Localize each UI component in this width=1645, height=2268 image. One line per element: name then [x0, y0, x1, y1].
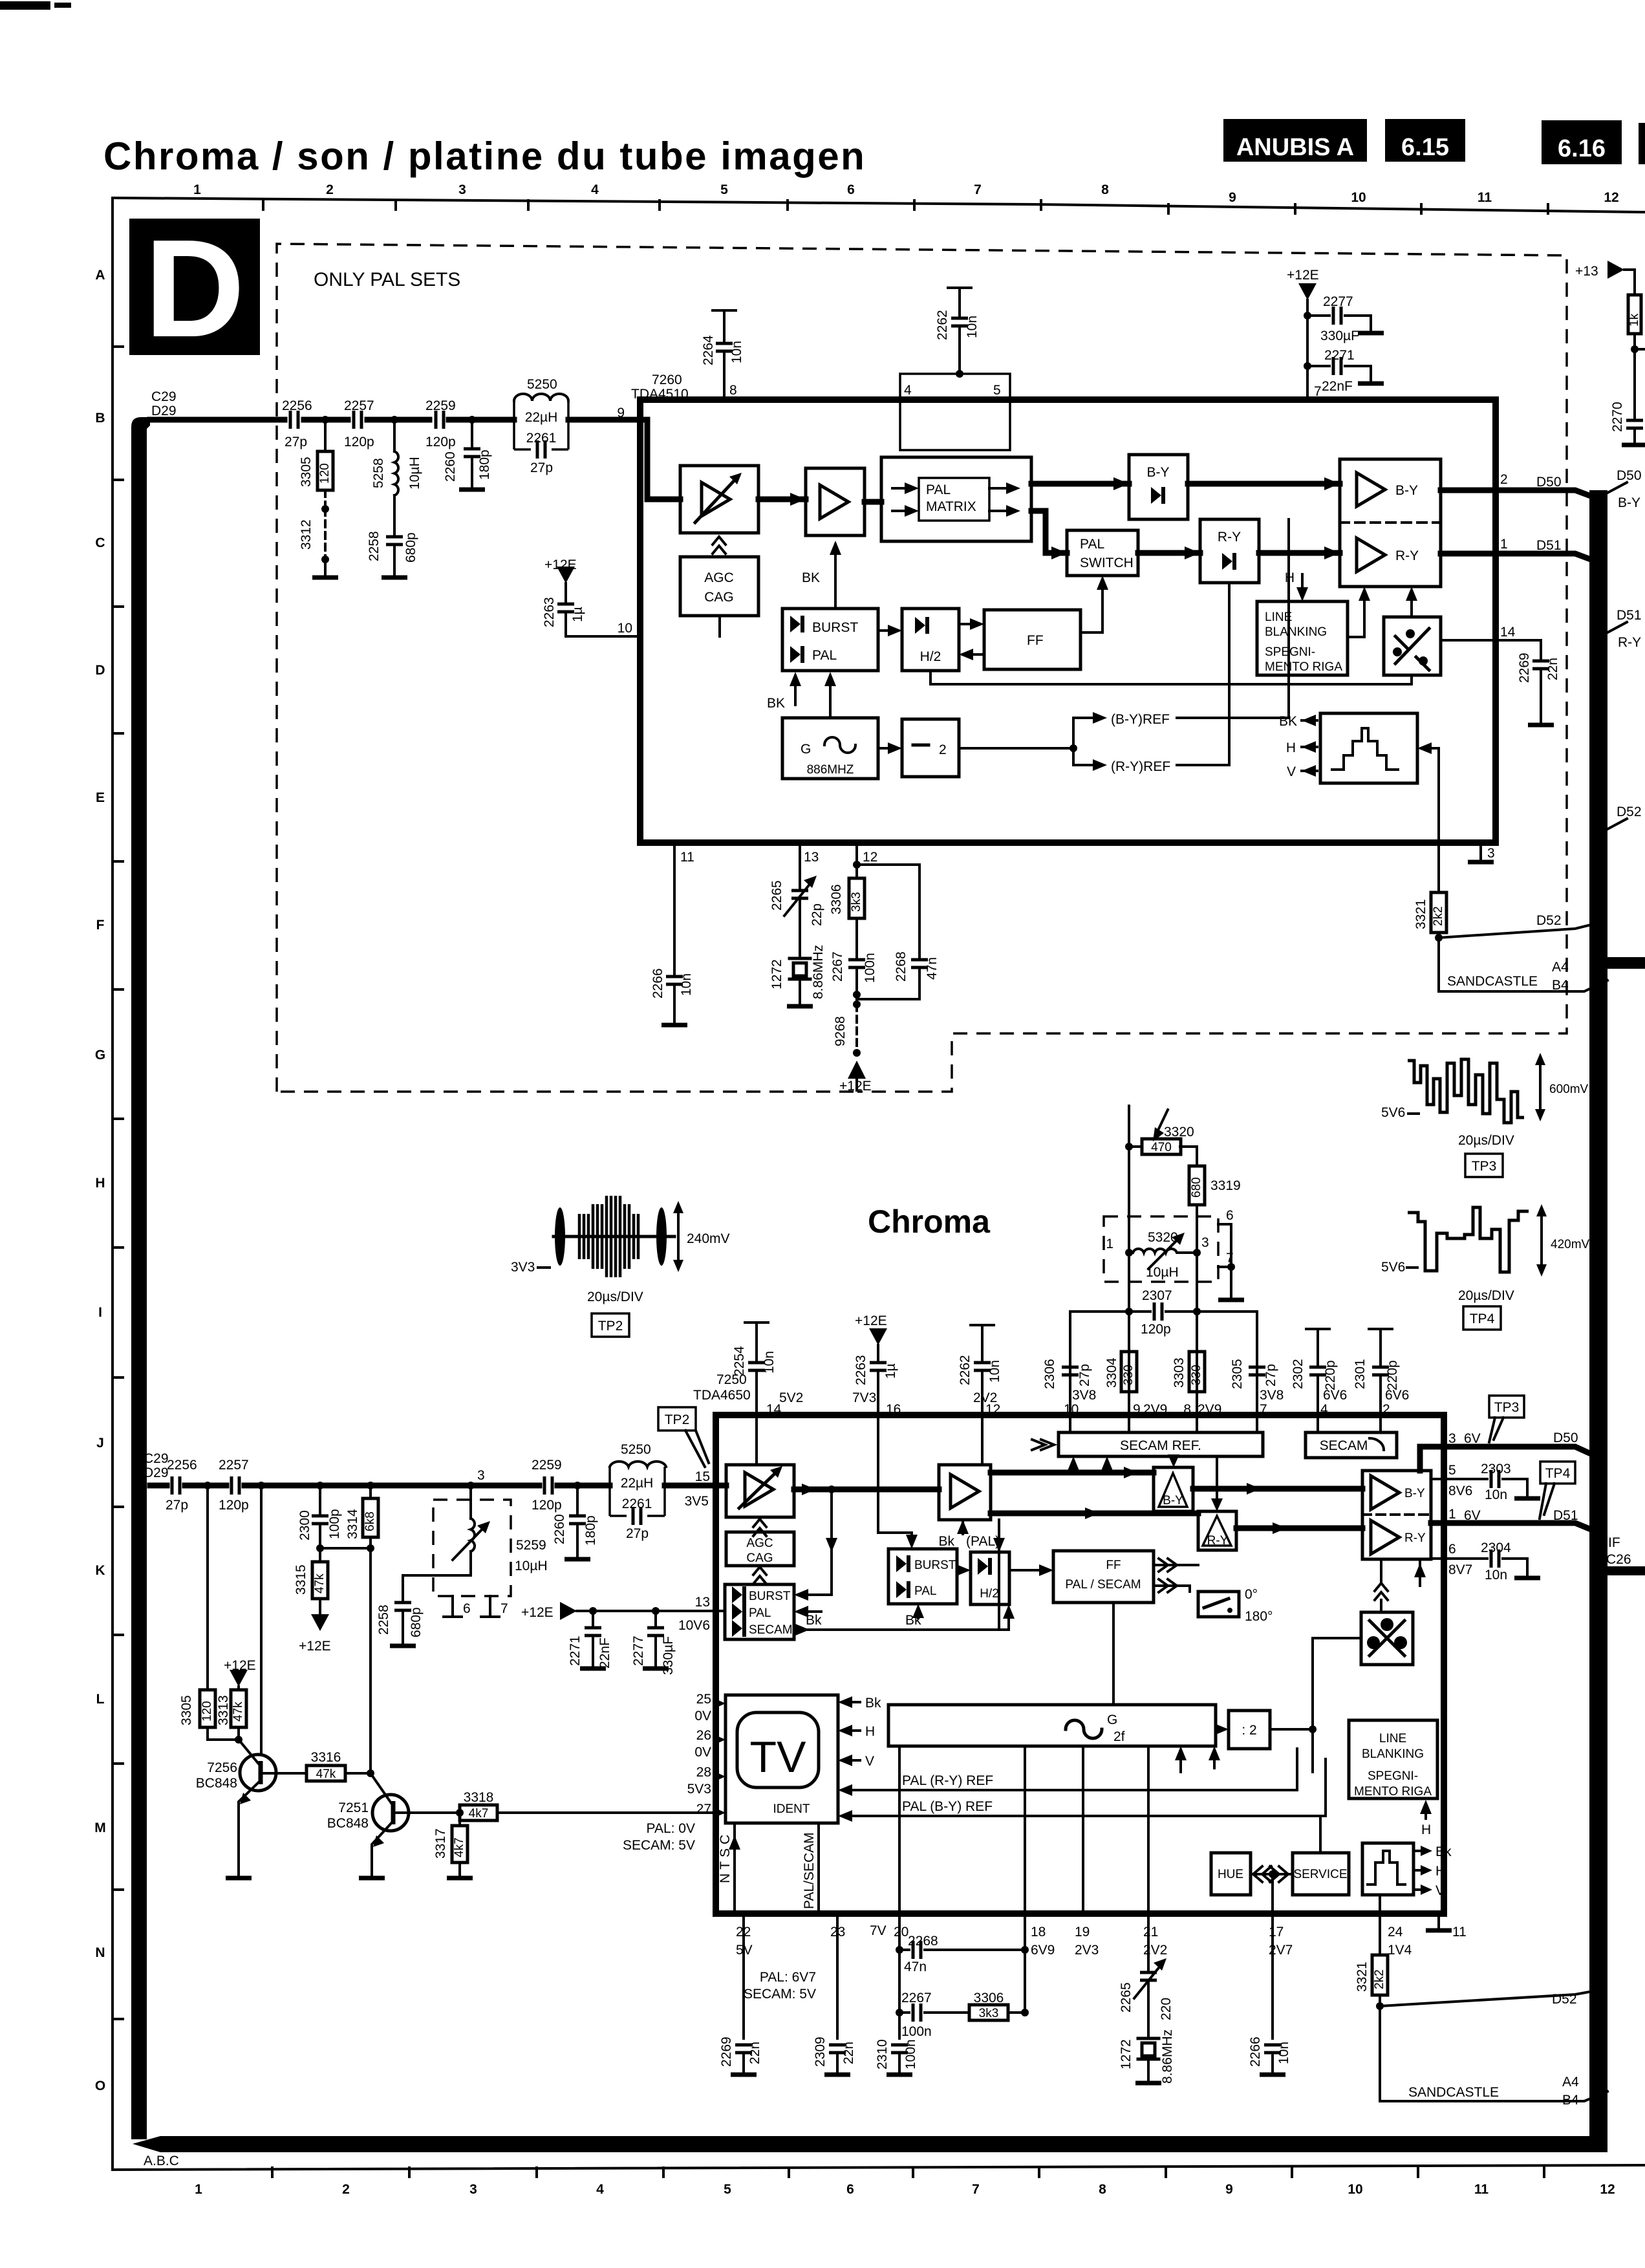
- svg-text:ONLY PAL SETS: ONLY PAL SETS: [314, 269, 460, 290]
- svg-text:SECAM: 5V: SECAM: 5V: [744, 1987, 816, 2002]
- resistor 3313 (47k): [231, 1690, 246, 1727]
- block: oscillator G 2f: [888, 1705, 1216, 1746]
- svg-text:8.86MHz: 8.86MHz: [1160, 2029, 1175, 2084]
- bus tap label D51 / R-Y (right edge): [1607, 622, 1627, 632]
- PAL (B-Y) REF line: [842, 1815, 1326, 1817]
- svg-text:4: 4: [596, 2182, 604, 2197]
- block: sandcastle staircase (TDA4650): [1362, 1843, 1414, 1895]
- wires SECAM REF to demodulators: [1174, 1456, 1217, 1507]
- svg-text:24: 24: [1388, 1925, 1403, 1939]
- wires G box pin drops: [899, 1746, 1148, 1914]
- svg-text:Chroma: Chroma: [868, 1204, 991, 1240]
- svg-text:180p: 180p: [477, 449, 492, 480]
- svg-text:3k3: 3k3: [979, 2007, 999, 2020]
- block: B-Y demodulator (TDA4650): [1154, 1467, 1193, 1511]
- BK input below BURST PAL: [794, 676, 797, 705]
- svg-text:IDENT: IDENT: [773, 1802, 810, 1816]
- block: chroma amplifier: [806, 468, 865, 535]
- svg-text:PAL: PAL: [812, 648, 837, 663]
- svg-text:TP3: TP3: [1494, 1400, 1520, 1415]
- wire (R-Y)REF: [1073, 748, 1093, 765]
- svg-text:G: G: [801, 742, 811, 757]
- svg-text:10n: 10n: [762, 1351, 777, 1374]
- svg-text:D29: D29: [144, 1465, 169, 1480]
- svg-text:2: 2: [326, 182, 334, 197]
- block: output amplifiers B-Y / R-Y: [1340, 459, 1441, 587]
- capacitor 2257 (120p): [354, 411, 361, 429]
- svg-text:20µs/DIV: 20µs/DIV: [587, 1290, 643, 1304]
- wire matrix to B-Y demod: [1031, 481, 1129, 487]
- svg-text:9: 9: [1229, 190, 1236, 205]
- svg-text:3317: 3317: [433, 1828, 448, 1859]
- terminals 6 / 7 of 5259: [444, 1596, 499, 1617]
- svg-text:2257: 2257: [344, 398, 374, 413]
- svg-text:CAG: CAG: [704, 590, 734, 605]
- wire (B-Y)REF: [959, 718, 1093, 748]
- capacitor 2269 (22n) on pin 14: [1496, 640, 1541, 660]
- svg-text:10µH: 10µH: [1146, 1265, 1179, 1280]
- svg-text:28: 28: [696, 1765, 711, 1780]
- svg-text:2f: 2f: [1113, 1729, 1125, 1744]
- wire sandcastle to pin 24: [1379, 1895, 1381, 1914]
- svg-text:A4: A4: [1552, 960, 1569, 975]
- wire bell filter up to output amps: [1380, 1559, 1382, 1583]
- svg-text:3321: 3321: [1414, 899, 1428, 929]
- wire 5259 to capacitor 2258 (680p) bottom: [403, 1551, 471, 1601]
- svg-text:2265: 2265: [769, 880, 784, 911]
- svg-text:2305: 2305: [1230, 1359, 1245, 1389]
- block: BURST / PAL gate 2: [888, 1549, 957, 1604]
- block: LINE BLANKING / SPEGNIMENTO RIGA (TDA4650): [1349, 1720, 1437, 1798]
- capacitor 2277 (330uF) bottom: [654, 1611, 657, 1626]
- svg-text:6: 6: [1226, 1208, 1234, 1223]
- svg-text:5: 5: [993, 383, 1001, 398]
- svg-text:: 2: : 2: [1242, 1723, 1256, 1738]
- svg-text:A: A: [95, 268, 105, 283]
- svg-text:9268: 9268: [833, 1016, 848, 1046]
- top ruler numbers 1-12: [193, 182, 1619, 205]
- svg-text:SWITCH: SWITCH: [1080, 556, 1134, 570]
- svg-text:BK: BK: [767, 696, 785, 711]
- svg-text:B4: B4: [1562, 2093, 1579, 2108]
- svg-text:K: K: [95, 1563, 105, 1578]
- capacitor 2267 (100n) and resistor 3306 (3k3) bottom: [896, 2009, 903, 2016]
- svg-text:7260: 7260: [652, 373, 682, 387]
- node junctions on J bus: [204, 1482, 211, 1489]
- svg-text:10V6: 10V6: [678, 1618, 710, 1633]
- svg-text:2261: 2261: [526, 431, 557, 446]
- svg-text:BURST: BURST: [914, 1559, 956, 1572]
- svg-text:1: 1: [1448, 1507, 1456, 1522]
- block: PAL MATRIX: [881, 457, 1031, 541]
- svg-text:PAL: PAL: [926, 482, 951, 497]
- svg-text:330: 330: [1190, 1365, 1203, 1385]
- svg-text:1µ: 1µ: [570, 607, 585, 622]
- svg-text:0V: 0V: [694, 1709, 711, 1723]
- svg-text:LINE: LINE: [1265, 610, 1292, 624]
- svg-text:3304: 3304: [1104, 1357, 1119, 1388]
- ground: [312, 577, 338, 578]
- svg-text:D: D: [144, 210, 244, 366]
- svg-text:H: H: [865, 1724, 875, 1739]
- bus tap label D52 (right edge): [1607, 819, 1627, 829]
- svg-text:10: 10: [1351, 190, 1366, 205]
- svg-text:+12E: +12E: [299, 1639, 331, 1654]
- wire amp2 top output to B-Y demod: [991, 1470, 1154, 1476]
- TV IDENT inputs Bk H V: [842, 1702, 860, 1760]
- svg-text:5259: 5259: [516, 1538, 546, 1553]
- svg-text:5250: 5250: [621, 1442, 651, 1457]
- svg-text:6V: 6V: [1464, 1431, 1481, 1446]
- capacitor 2257 (120p) bottom: [231, 1476, 239, 1495]
- block: R-Y demodulator: [1200, 519, 1259, 583]
- svg-text:TP4: TP4: [1470, 1312, 1495, 1326]
- svg-text:120: 120: [318, 463, 332, 484]
- block: divider :2 (TDA4650): [1229, 1711, 1270, 1749]
- svg-text:PAL (R-Y) REF: PAL (R-Y) REF: [902, 1773, 993, 1788]
- svg-text:Chroma / son / platine du tube: Chroma / son / platine du tube imagen: [103, 135, 866, 178]
- svg-text:Bk: Bk: [865, 1696, 881, 1711]
- svg-text:B: B: [95, 411, 105, 426]
- test point TP4 tag (pin 1): [1540, 1462, 1575, 1484]
- pin 12 resistor 3306 (3k3): [855, 843, 858, 878]
- block: LINE BLANKING / SPEGNIMENTO RIGA: [1257, 601, 1348, 675]
- svg-text:FF: FF: [1027, 633, 1044, 648]
- scan artifact top-left: [0, 1, 50, 10]
- svg-text:D51: D51: [1617, 608, 1642, 623]
- svg-text:NTSC: NTSC: [718, 1831, 733, 1883]
- capacitor 2254 (10n) on pin 14: [745, 1321, 768, 1324]
- svg-text:Bk: Bk: [938, 1534, 954, 1549]
- svg-text:D50: D50: [1536, 475, 1562, 490]
- svg-text:6V9: 6V9: [1031, 1943, 1055, 1958]
- svg-text:5: 5: [720, 182, 728, 197]
- svg-text:MATRIX: MATRIX: [926, 499, 976, 514]
- svg-text:47k: 47k: [313, 1573, 327, 1593]
- svg-text:2262: 2262: [958, 1355, 973, 1385]
- svg-text:2306: 2306: [1042, 1359, 1057, 1389]
- svg-text:47n: 47n: [904, 1960, 927, 1974]
- svg-text:C26: C26: [1606, 1552, 1631, 1567]
- wire phase shifter to pin 14: [1441, 639, 1496, 642]
- IC U7260 TDA4510 outline: [640, 400, 1496, 843]
- pin 13 trimmer 2265 (22p): [799, 843, 801, 889]
- svg-text:R-Y: R-Y: [1404, 1531, 1426, 1545]
- svg-text:3315: 3315: [294, 1564, 308, 1595]
- svg-text:H/2: H/2: [980, 1587, 999, 1601]
- bus tap label D50 / B-Y (right edge, top): [1607, 482, 1627, 493]
- svg-text:2257: 2257: [219, 1458, 249, 1473]
- node junction: [321, 416, 329, 424]
- block: chroma amplifier 2 (TDA4650): [939, 1465, 991, 1520]
- svg-text:B-Y: B-Y: [1404, 1487, 1425, 1500]
- capacitor 2270: [1626, 420, 1643, 428]
- svg-text:180°: 180°: [1245, 1609, 1273, 1624]
- svg-text:5320: 5320: [1148, 1230, 1178, 1245]
- svg-text:(R-Y)REF: (R-Y)REF: [1111, 759, 1170, 774]
- svg-text:5V2: 5V2: [779, 1390, 803, 1405]
- block: R-Y demodulator (TDA4650): [1198, 1511, 1236, 1550]
- block: FF flip-flop: [984, 610, 1081, 669]
- svg-text:TP4: TP4: [1545, 1466, 1571, 1481]
- svg-text:8: 8: [1101, 182, 1109, 197]
- svg-text:PAL: PAL: [749, 1606, 771, 1620]
- svg-text:Bk: Bk: [1435, 1844, 1452, 1859]
- resistor 3314 (6k8): [369, 1485, 372, 1498]
- block: input gain-controlled amplifier: [680, 466, 758, 533]
- svg-text:3: 3: [469, 2182, 477, 2197]
- svg-text:3320: 3320: [1164, 1125, 1194, 1139]
- svg-text:8V7: 8V7: [1448, 1562, 1472, 1577]
- svg-text:AGC: AGC: [746, 1537, 773, 1550]
- svg-text:26: 26: [696, 1728, 711, 1743]
- svg-text:7: 7: [972, 2182, 980, 2197]
- svg-text:12: 12: [863, 850, 877, 865]
- wire R-Y demod to output amp: [1236, 1526, 1362, 1531]
- left vertical power bus bar: [131, 417, 150, 2139]
- page frame: bottom ruler line: [113, 2165, 1645, 2170]
- svg-text:7V3: 7V3: [852, 1390, 876, 1405]
- svg-text:+12E: +12E: [1287, 268, 1319, 283]
- svg-text:TP2: TP2: [665, 1412, 690, 1427]
- sandcastle BK H V outputs: [1302, 720, 1317, 771]
- svg-text:3: 3: [1448, 1431, 1456, 1446]
- svg-text:680p: 680p: [409, 1607, 424, 1637]
- svg-text:120p: 120p: [344, 435, 374, 449]
- svg-text:100n: 100n: [863, 953, 877, 983]
- svg-text:0°: 0°: [1245, 1587, 1258, 1602]
- svg-text:3V8: 3V8: [1072, 1388, 1096, 1403]
- svg-text:J: J: [96, 1436, 104, 1451]
- wires oscillator to divider and taps: [1216, 1728, 1225, 1731]
- svg-text:D50: D50: [1617, 468, 1642, 483]
- svg-text:21: 21: [1143, 1925, 1158, 1939]
- wire FF to REF lines: [1112, 1603, 1115, 1705]
- svg-text:7: 7: [1314, 384, 1322, 399]
- svg-text:2263: 2263: [542, 597, 557, 627]
- svg-text:3V5: 3V5: [685, 1494, 709, 1509]
- svg-text:2303: 2303: [1481, 1462, 1511, 1476]
- wire: pin 9 input elbow: [640, 420, 680, 499]
- svg-text:PAL: 6V7: PAL: 6V7: [760, 1970, 816, 1985]
- block: H/2 (TDA4650): [971, 1552, 1009, 1604]
- crystal 1272 (8.86MHz): [799, 900, 801, 956]
- svg-text:2263: 2263: [854, 1355, 868, 1385]
- svg-text:27p: 27p: [530, 460, 553, 475]
- svg-text:5: 5: [724, 2182, 731, 2197]
- svg-text:A4: A4: [1562, 2075, 1579, 2090]
- svg-text:R-Y: R-Y: [1395, 548, 1419, 563]
- capacitor 2307 (120p): [1129, 1310, 1197, 1313]
- svg-text:420mV: 420mV: [1551, 1238, 1590, 1251]
- capacitor 2268 (47n) parallel branch: [857, 865, 919, 958]
- svg-text:2307: 2307: [1142, 1288, 1172, 1303]
- resistor 1k: [1628, 295, 1641, 334]
- svg-text:2258: 2258: [367, 531, 382, 561]
- svg-text:0V: 0V: [694, 1745, 711, 1760]
- wire FF to PAL SWITCH: [1081, 579, 1102, 632]
- svg-text:F: F: [96, 918, 105, 933]
- svg-text:3306: 3306: [974, 1991, 1004, 2005]
- wire bus junction down to resistor 3305 bottom: [206, 1485, 209, 1690]
- svg-text:886MHZ: 886MHZ: [807, 763, 854, 777]
- svg-text:6: 6: [847, 182, 855, 197]
- svg-text:H: H: [1435, 1864, 1445, 1879]
- svg-text:22n: 22n: [747, 2042, 762, 2064]
- svg-text:2269: 2269: [1517, 653, 1532, 683]
- block: FF PAL / SECAM: [1053, 1551, 1154, 1603]
- svg-text:7251: 7251: [338, 1800, 369, 1815]
- test point TP3 tag (pin 3): [1489, 1396, 1524, 1418]
- svg-text:TDA4650: TDA4650: [693, 1388, 751, 1403]
- svg-text:16: 16: [886, 1402, 901, 1417]
- resistor 3303 (330) on pin 8: [1196, 1312, 1198, 1415]
- svg-text:3: 3: [458, 182, 466, 197]
- svg-text:2268: 2268: [894, 951, 909, 982]
- svg-text:PAL: 0V: PAL: 0V: [647, 1821, 696, 1836]
- wire pin 2 output (D50): [1441, 488, 1496, 493]
- ONLY PAL SETS dashed boundary: [277, 244, 1567, 1092]
- variable inductor 5320 (10uH) dashed module: [1104, 1216, 1218, 1282]
- svg-text:10n: 10n: [987, 1360, 1002, 1383]
- svg-text:D52: D52: [1552, 1992, 1577, 2007]
- svg-text:+12E: +12E: [855, 1313, 887, 1328]
- wire: B-row chroma input bus: [150, 417, 640, 423]
- svg-text:5V6: 5V6: [1381, 1105, 1405, 1120]
- wire SANDCASTLE line to bus: [1439, 938, 1607, 991]
- svg-text:SERVICE: SERVICE: [1293, 1868, 1347, 1881]
- svg-text:TV: TV: [750, 1733, 807, 1782]
- block: AGC CAG (TDA4650): [726, 1532, 794, 1566]
- svg-text:3319: 3319: [1210, 1178, 1241, 1193]
- svg-text:9: 9: [1225, 2182, 1233, 2197]
- svg-text:13: 13: [804, 850, 819, 865]
- svg-text:7: 7: [500, 1601, 508, 1616]
- svg-text:7: 7: [974, 182, 982, 197]
- bottom horizontal power bus: [133, 2136, 1607, 2152]
- svg-text:D29: D29: [151, 404, 177, 418]
- svg-text:BLANKING: BLANKING: [1362, 1747, 1424, 1761]
- wire D50 output pin 3: [1420, 1447, 1444, 1471]
- svg-text:3312: 3312: [299, 519, 314, 550]
- svg-text:N: N: [95, 1945, 105, 1960]
- svg-text:H: H: [1285, 570, 1295, 585]
- capacitor 2300 (100p): [319, 1485, 321, 1515]
- svg-text:2254: 2254: [732, 1346, 747, 1376]
- NTSC output of TV IDENT: [733, 1823, 736, 1914]
- wire D52 to bus: [1439, 925, 1591, 938]
- wires to transistor 7256: [208, 1727, 239, 1740]
- svg-text:10µH: 10µH: [407, 457, 422, 490]
- resistor 3317 (4k7): [458, 1813, 461, 1826]
- bus continuation stub to next sheet (IF row): [1607, 957, 1645, 969]
- svg-text:20µs/DIV: 20µs/DIV: [1458, 1133, 1514, 1148]
- wire SANDCASTLE bottom to bus: [1380, 2006, 1607, 2101]
- wire input amp to chroma amp2: [794, 1487, 939, 1493]
- svg-text:27: 27: [696, 1802, 711, 1817]
- svg-text:5V3: 5V3: [687, 1782, 711, 1797]
- capacitor 2264 (10n) on pin 8: [713, 309, 736, 312]
- svg-text:BURST: BURST: [812, 620, 858, 635]
- left border tick marks: [113, 347, 123, 2019]
- svg-text:6: 6: [846, 2182, 854, 2197]
- svg-text:2271: 2271: [568, 1636, 583, 1666]
- svg-text:27p: 27p: [626, 1526, 649, 1541]
- svg-text:600mV: 600mV: [1549, 1083, 1589, 1096]
- chevrons into SECAM REF left edge: [1032, 1440, 1054, 1450]
- svg-text:2260: 2260: [552, 1514, 567, 1544]
- wire 3314 node down to 3316 node: [369, 1548, 372, 1773]
- test point TP2 tag: [592, 1313, 629, 1337]
- wire R-Y demod to output amp: [1259, 550, 1340, 556]
- svg-text:LINE: LINE: [1379, 1732, 1406, 1745]
- svg-text:2266: 2266: [1248, 2036, 1263, 2067]
- capacitor 2259 (120p) bottom: [544, 1476, 552, 1495]
- svg-text:2304: 2304: [1481, 1540, 1511, 1555]
- svg-text:BC848: BC848: [196, 1776, 237, 1791]
- capacitor 2256 (27p) bottom: [172, 1476, 180, 1495]
- wire B-Y demod to output amp: [1193, 1486, 1362, 1492]
- svg-text:SECAM: SECAM: [1320, 1438, 1368, 1453]
- svg-text:MENTO RIGA: MENTO RIGA: [1354, 1785, 1432, 1798]
- svg-text:G: G: [1107, 1712, 1117, 1727]
- svg-text:E: E: [96, 790, 105, 805]
- left row letters A-O: [94, 268, 106, 2093]
- svg-text:TP3: TP3: [1472, 1159, 1497, 1174]
- svg-text:180p: 180p: [583, 1515, 598, 1546]
- svg-text:6: 6: [463, 1601, 471, 1616]
- svg-text:1µ: 1µ: [883, 1363, 898, 1379]
- svg-text:9: 9: [617, 405, 625, 420]
- right vertical power bus: [1589, 490, 1607, 2146]
- svg-text:2V3: 2V3: [1075, 1943, 1099, 1958]
- svg-text:2267: 2267: [830, 951, 845, 982]
- svg-text:10µH: 10µH: [515, 1559, 548, 1573]
- block: SECAM ident: [1306, 1432, 1397, 1458]
- resistor 3316 (47k): [263, 1772, 306, 1775]
- svg-text:330µF: 330µF: [1320, 329, 1359, 343]
- svg-text:SECAM REF.: SECAM REF.: [1120, 1438, 1201, 1453]
- wire 5320 pins 6/7 to ground: [1218, 1224, 1231, 1297]
- svg-text:2256: 2256: [282, 398, 312, 413]
- capacitor 2262 (10n) on pin 12: [971, 1324, 994, 1326]
- block: SECAM REF: [1059, 1432, 1263, 1456]
- svg-text:120p: 120p: [532, 1498, 562, 1513]
- transistor 7256 BC848: [240, 1755, 276, 1791]
- svg-text:FF: FF: [1106, 1559, 1121, 1572]
- svg-text:3: 3: [477, 1468, 485, 1483]
- block: 90 deg phase shifter: [1384, 617, 1441, 675]
- svg-text:BC848: BC848: [327, 1816, 369, 1831]
- svg-text:3316: 3316: [311, 1750, 341, 1765]
- waveform: 420mV SECAM ref at TP4: [1408, 1207, 1529, 1272]
- block: H/2: [902, 609, 959, 671]
- resistor 3318 (4k7): [395, 1811, 460, 1814]
- wire PAL SWITCH to R-Y demod: [1138, 550, 1200, 556]
- header label box 6.16: [1542, 120, 1622, 164]
- block: BURST PAL gate: [782, 609, 878, 671]
- svg-text:10: 10: [1348, 2182, 1362, 2197]
- block: BURST PAL SECAM gate: [725, 1584, 794, 1639]
- svg-text:2269: 2269: [719, 2036, 734, 2067]
- svg-text:220: 220: [1159, 1998, 1174, 2020]
- wire cap row header: [1070, 1312, 1257, 1415]
- svg-text:1k: 1k: [1628, 313, 1641, 327]
- svg-text:100n: 100n: [903, 2039, 918, 2069]
- PAL/SECAM output of TV IDENT: [817, 1823, 820, 1914]
- svg-text:3305: 3305: [179, 1695, 194, 1725]
- wire B-Y demod to output amp: [1188, 481, 1340, 487]
